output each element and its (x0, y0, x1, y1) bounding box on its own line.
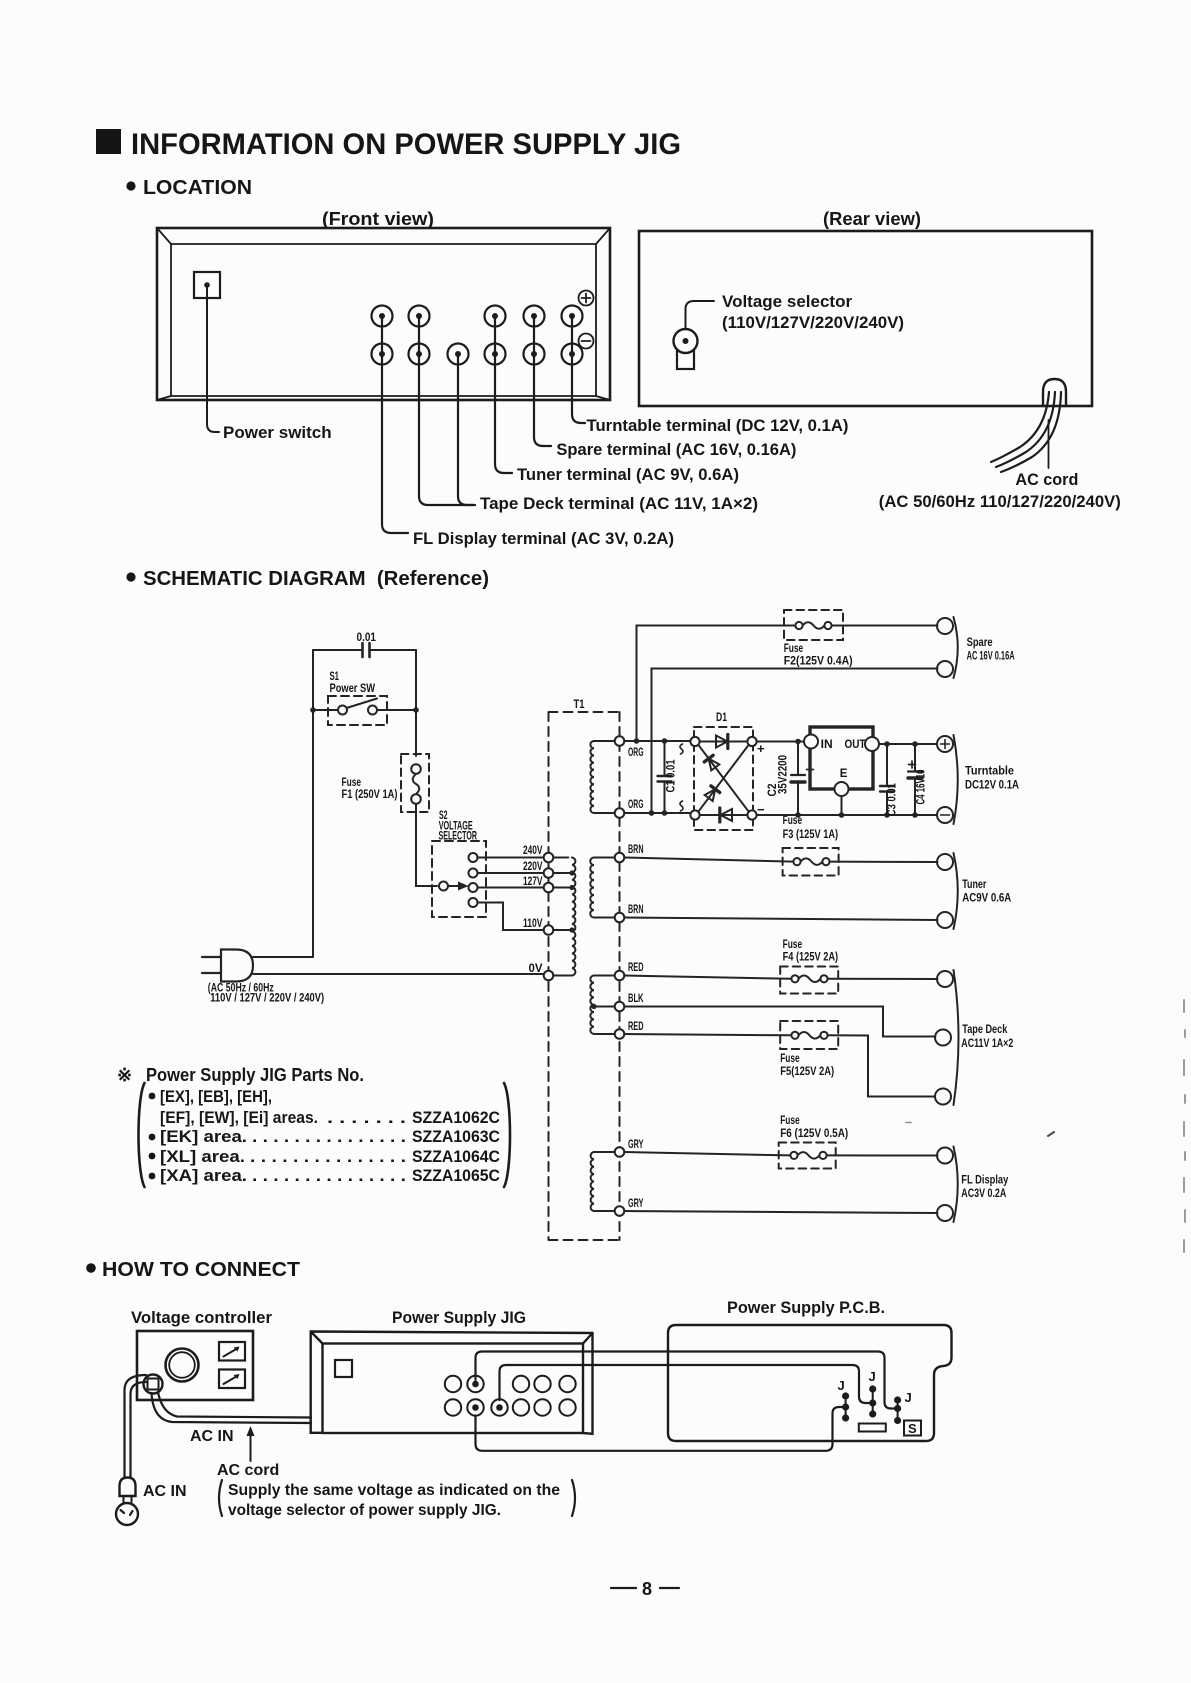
primary tap 0V (544, 971, 554, 981)
JIG power switch square (335, 1360, 352, 1377)
fuse F3 (125V 1A) (783, 848, 839, 876)
svg-text:GRY: GRY (628, 1139, 644, 1151)
terminal Turntable minus (937, 807, 953, 823)
JIG terminal c2r2 (connected) (467, 1399, 483, 1415)
wire BRN bottom to tuner (624, 918, 937, 921)
svg-text:OUT: OUT (845, 739, 866, 751)
wire BRN top to tuner (624, 858, 937, 863)
bridge node bottom-right (747, 810, 756, 819)
plus polarity symbol (579, 291, 594, 306)
svg-text:Power switch: Power switch (223, 423, 332, 442)
secondary terminal RED top (615, 971, 625, 981)
bridge rectifier D1 dashed box (694, 727, 753, 830)
svg-text:E: E (840, 768, 848, 780)
secondary terminal BRN top (615, 853, 625, 863)
bracket FL display (954, 1147, 958, 1223)
cord controller to JIG (158, 1392, 311, 1418)
JIG terminal c3r2 (connected) (491, 1399, 507, 1415)
controller meter 1 (219, 1342, 245, 1361)
svg-text:35V2200: 35V2200 (778, 755, 790, 794)
JIG box right side (583, 1333, 593, 1434)
wire spare upper riser (637, 626, 796, 742)
svg-text:AC 16V 0.16A: AC 16V 0.16A (967, 651, 1015, 663)
primary tap 240V (544, 853, 554, 863)
parts list closing paren (504, 1083, 510, 1187)
JIG terminal c2r1 (connected) (467, 1376, 483, 1392)
svg-text:INFORMATION ON POWER SUPPLY JI: INFORMATION ON POWER SUPPLY JIG (131, 128, 681, 161)
PCB outline (668, 1325, 952, 1441)
svg-text:(Front view): (Front view) (322, 209, 434, 229)
parts line 3 (149, 1134, 156, 1141)
switch S1 Power SW (328, 696, 387, 725)
terminal column 5 (spare) (524, 306, 545, 327)
selector contact 220V (469, 869, 478, 878)
PCB S box (904, 1421, 921, 1436)
svg-text:Fuse: Fuse (780, 1115, 800, 1127)
svg-text:Fuse: Fuse (780, 1053, 800, 1065)
power switch (front view) (194, 272, 220, 298)
transformer T1 dashed box (549, 712, 620, 1240)
secondary terminal GRY bottom (615, 1206, 625, 1216)
fuse F4 (125V 2A) (780, 967, 838, 994)
svg-text:S1: S1 (330, 671, 340, 683)
title square bullet (96, 129, 121, 154)
svg-text:220V: 220V (523, 861, 543, 873)
svg-text:110V: 110V (523, 918, 543, 930)
primary tap 127V (544, 883, 554, 893)
terminal Spare top (937, 618, 953, 634)
svg-text:S: S (908, 1421, 917, 1436)
svg-text:FL Display terminal (AC 3V, 0.: FL Display terminal (AC 3V, 0.2A) (413, 529, 674, 548)
JIG terminal c1r2 (445, 1399, 461, 1415)
svg-text:C3 0.01: C3 0.01 (887, 783, 899, 816)
wire RED top to tape deck (624, 976, 937, 980)
svg-text:C4 16V10: C4 16V10 (915, 770, 927, 805)
fuse F6 (125V 0.5A) (779, 1143, 836, 1169)
fuse F1 (250V 1A) (401, 754, 429, 812)
svg-text:F3 (125V 1A): F3 (125V 1A) (783, 829, 839, 841)
svg-text:AC3V 0.2A: AC3V 0.2A (961, 1188, 1006, 1200)
svg-text:SZZA1064C: SZZA1064C (412, 1147, 500, 1166)
svg-text:AC cord: AC cord (217, 1462, 279, 1479)
JIG terminal c1r1 (445, 1376, 461, 1392)
svg-text:127V: 127V (523, 876, 543, 888)
svg-text:SZZA1062C: SZZA1062C (412, 1108, 500, 1127)
terminal column 4 (tuner) (485, 306, 506, 327)
svg-text:LOCATION: LOCATION (143, 176, 252, 199)
svg-text:Tape Deck terminal (AC 11V, 1A: Tape Deck terminal (AC 11V, 1A×2) (480, 494, 758, 513)
parts list opening paren (139, 1083, 145, 1187)
wire contact4 to 110V tap (478, 903, 544, 931)
wire spare lower riser (652, 669, 938, 814)
svg-text:[EX], [EB], [EH],: [EX], [EB], [EH], (160, 1087, 272, 1106)
svg-text:F2(125V 0.4A): F2(125V 0.4A) (784, 656, 853, 668)
svg-text:※: ※ (117, 1065, 132, 1085)
capacitor C3 0.01 (886, 744, 888, 815)
parts line 1 (149, 1093, 156, 1100)
terminal column 2 (tape deck) (409, 306, 430, 327)
svg-text:J: J (905, 1390, 912, 1405)
wire col5 to Spare label (534, 316, 551, 446)
svg-text:Fuse: Fuse (342, 777, 362, 789)
wire GRY bottom to FL display (624, 1211, 937, 1213)
wire C jig c2r2 to PCB J1 (476, 1407, 843, 1451)
controller knob (166, 1349, 199, 1382)
svg-text:Spare: Spare (967, 637, 993, 649)
svg-text:Turntable: Turntable (965, 766, 1014, 778)
wire 127V tap (478, 887, 544, 889)
bracket turntable (954, 735, 958, 824)
wire ORG bottom rail (624, 812, 690, 814)
regulator OUT pin (865, 737, 879, 751)
wire bridge minus bottom rail (757, 814, 937, 816)
voltage controller box (137, 1331, 253, 1400)
svg-text:HOW TO CONNECT: HOW TO CONNECT (102, 1258, 300, 1281)
bullet LOCATION (126, 181, 135, 190)
svg-text:F4 (125V 2A): F4 (125V 2A) (783, 952, 839, 964)
terminal Tuner bottom (937, 912, 953, 928)
T1 secondary winding ORG (590, 741, 594, 813)
capacitor C1 0.01 (664, 741, 666, 813)
node spare riser on ORG top (634, 738, 640, 744)
bullet HOW TO CONNECT (86, 1263, 96, 1273)
svg-text:240V: 240V (523, 845, 543, 857)
wire col6 to Turntable label (572, 316, 585, 423)
node C2 bottom (795, 812, 801, 818)
capacitor C2 35V2200 (797, 742, 799, 816)
terminal Tape Deck top (937, 971, 953, 987)
svg-text:RED: RED (628, 962, 644, 974)
node C2 top (795, 739, 801, 745)
svg-text:voltage selector of power supp: voltage selector of power supply JIG. (228, 1502, 501, 1519)
selector arrow (448, 885, 459, 887)
bridge node top-right (747, 737, 756, 746)
svg-text:. . . . . . .: . . . . . . . (327, 1108, 406, 1127)
svg-text:ORG: ORG (628, 799, 644, 811)
wall plug AC IN (120, 1478, 136, 1497)
svg-text:0V: 0V (529, 963, 543, 975)
diode on TL-BR diagonal (709, 759, 720, 771)
JIG box top face (311, 1332, 593, 1344)
wire B jig c3r2 to PCB J2 (500, 1365, 870, 1403)
svg-text:AC11V 1A×2: AC11V 1A×2 (961, 1038, 1013, 1050)
PCB jumper J2 pins (872, 1389, 874, 1414)
wire RED bottom through F5 (624, 1034, 935, 1097)
wire bridge plus to regulator IN (757, 741, 804, 743)
front view panel outer frame (157, 228, 610, 400)
secondary terminal GRY top (615, 1147, 625, 1157)
controller AC inlet connector (144, 1375, 163, 1394)
plug prongs (202, 957, 221, 973)
note closing paren (572, 1480, 575, 1516)
terminal column 3 (tape deck lower) (448, 344, 469, 365)
svg-text:Tuner terminal (AC 9V, 0.6A): Tuner terminal (AC 9V, 0.6A) (517, 465, 739, 484)
wire A jig c2r1 to PCB J3 (476, 1352, 895, 1409)
node junction S1 right (413, 707, 419, 713)
JIG terminal c5r1 (534, 1376, 550, 1392)
JIG box left cap (311, 1332, 323, 1433)
svg-text:IN: IN (821, 739, 833, 751)
JIG terminal c4r2 (513, 1399, 529, 1415)
JIG terminal c6r2 (559, 1399, 575, 1415)
leader line AC cord (1048, 420, 1050, 468)
svg-text:Tape Deck: Tape Deck (962, 1024, 1007, 1036)
wire E to bottom rail (841, 796, 843, 815)
JIG terminal c6r1 (559, 1376, 575, 1392)
terminal Tuner top (937, 854, 953, 870)
primary tap 110V (544, 925, 554, 935)
label ac tilde bottom (680, 801, 683, 811)
wire F2 to spare terminal (832, 625, 938, 627)
terminal Tape Deck middle (935, 1030, 951, 1046)
svg-text:Fuse: Fuse (784, 643, 804, 655)
bullet SCHEMATIC DIAGRAM (126, 572, 135, 581)
arrow AC cord pointer (250, 1433, 252, 1461)
bezel corner lines (157, 228, 610, 400)
svg-text:D1: D1 (716, 712, 727, 724)
terminal column 6 (turntable) (562, 306, 583, 327)
svg-text:AC IN: AC IN (143, 1483, 187, 1500)
scan speck (1048, 1132, 1054, 1136)
svg-text:Power Supply JIG Parts No.: Power Supply JIG Parts No. (146, 1065, 364, 1085)
T1 primary winding (572, 858, 575, 976)
node junction S1 left (310, 707, 316, 713)
terminal FL Display bottom (937, 1205, 953, 1221)
svg-text:BRN: BRN (628, 904, 644, 916)
voltage selector keyhole (677, 348, 694, 369)
wire F1 to voltage selector (416, 804, 437, 886)
wire col3 to Tape Deck label (458, 354, 475, 505)
PCB connector footprint (859, 1424, 886, 1432)
svg-text:−: − (757, 802, 765, 817)
svg-text:. . . . . . . . . . . . . . .: . . . . . . . . . . . . . . . (252, 1166, 406, 1185)
PCB jumper J1 pins (845, 1396, 847, 1418)
JIG terminal c4r1 (513, 1376, 529, 1392)
secondary terminal ORG bottom (615, 808, 625, 818)
svg-text:SELECTOR: SELECTOR (439, 830, 478, 842)
terminal Spare bottom (937, 661, 953, 677)
T1 secondary winding BRN (590, 858, 594, 918)
wire right vertical cap to fuse F1 (415, 650, 417, 756)
wall outlet symbol (116, 1503, 138, 1525)
selector contact spare (469, 898, 478, 907)
svg-text:(110V/127V/220V/240V): (110V/127V/220V/240V) (722, 313, 904, 332)
selector contact 127V (469, 883, 478, 892)
svg-text:DC12V 0.1A: DC12V 0.1A (965, 780, 1019, 792)
svg-text:Fuse: Fuse (783, 939, 803, 951)
scan noise right edge (1184, 1000, 1185, 1252)
rear view panel (639, 231, 1092, 406)
front view panel inner bezel (171, 244, 596, 396)
svg-text:8: 8 (642, 1579, 652, 1599)
svg-text:(Rear view): (Rear view) (823, 209, 921, 229)
bracket tuner (954, 853, 958, 929)
capacitor 0.01 (line filter) (313, 649, 416, 651)
secondary terminal BRN bottom (615, 913, 625, 923)
svg-text:+: + (757, 741, 765, 756)
svg-text:RED: RED (628, 1021, 644, 1033)
secondary terminal ORG top (615, 736, 625, 746)
wire GRY top to FL display (624, 1152, 937, 1156)
wire left vertical from plug to cap (312, 650, 314, 957)
bridge diagonal BL-TR (698, 745, 748, 812)
wire col4 to Tuner label (495, 316, 512, 473)
PCB jumper J3 pins (897, 1400, 899, 1421)
svg-text:(AC 50/60Hz 110/127/220/240V): (AC 50/60Hz 110/127/220/240V) (879, 492, 1121, 511)
svg-text:FL Display: FL Display (961, 1175, 1008, 1187)
wire 240V tap (478, 857, 544, 859)
wire voltage selector to label (686, 301, 715, 329)
terminal FL Display top (937, 1148, 953, 1164)
bridge node top-left (690, 737, 699, 746)
svg-text:0.01: 0.01 (357, 632, 377, 644)
regulator E pin (835, 782, 849, 796)
primary tap 220V (544, 868, 554, 878)
selector contact 240V (469, 853, 478, 862)
node spare riser on ORG bottom (649, 810, 655, 816)
JIG box front face (323, 1344, 584, 1434)
svg-text:Voltage selector: Voltage selector (722, 292, 852, 311)
voltage regulator block (810, 727, 873, 789)
svg-text:Tuner: Tuner (962, 879, 986, 891)
svg-text:GRY: GRY (628, 1198, 644, 1210)
page number (611, 1587, 679, 1589)
svg-text:. . . . . . . . . . . . . . .: . . . . . . . . . . . . . . . (252, 1127, 406, 1146)
svg-text:Fuse: Fuse (783, 815, 803, 827)
svg-text:Spare terminal (AC 16V, 0.16A): Spare terminal (AC 16V, 0.16A) (556, 440, 796, 459)
JIG terminal c5r2 (534, 1399, 550, 1415)
svg-text:AC9V 0.6A: AC9V 0.6A (962, 893, 1011, 905)
wire power switch to label (207, 287, 219, 432)
svg-text:[XL] area.: [XL] area. (160, 1147, 245, 1166)
AC cord grommet (1043, 379, 1066, 406)
label ac tilde top (680, 744, 683, 754)
svg-text:J: J (838, 1378, 845, 1393)
minus polarity symbol (579, 334, 594, 349)
wire plug top lead (253, 956, 313, 958)
diode on BL-TR diagonal (705, 789, 716, 801)
parts line 4 (149, 1153, 156, 1160)
svg-text:AC cord: AC cord (1015, 470, 1078, 489)
svg-text:AC IN: AC IN (190, 1428, 234, 1445)
svg-text:BLK: BLK (628, 993, 644, 1005)
T1 secondary winding RED-BLK-RED (590, 976, 594, 1034)
switch S2 voltage selector (432, 841, 486, 917)
fuse F5 (125V 2A) (780, 1021, 838, 1049)
svg-text:SZZA1065C: SZZA1065C (412, 1166, 500, 1185)
terminal Tape Deck bottom (935, 1089, 951, 1105)
svg-text:[EK] area.: [EK] area. (160, 1127, 247, 1146)
terminal Turntable plus (937, 736, 953, 752)
bridge node bottom-left (690, 810, 699, 819)
wire col1 to FL Display label (382, 316, 408, 533)
svg-text:Voltage controller: Voltage controller (131, 1308, 272, 1327)
secondary terminal BLK (615, 1002, 625, 1012)
svg-text:. . . . . . . . . . . . . . .: . . . . . . . . . . . . . . . (250, 1147, 406, 1166)
bracket tape deck (954, 970, 959, 1105)
AC plug (schematic) (221, 950, 253, 982)
svg-text:BRN: BRN (628, 844, 644, 856)
bridge bottom side diode (700, 814, 748, 816)
svg-text:Power Supply JIG: Power Supply JIG (392, 1308, 526, 1327)
bracket spare (954, 617, 958, 678)
wire BLK to tape deck middle (624, 1007, 935, 1037)
svg-text:SZZA1063C: SZZA1063C (412, 1127, 500, 1146)
svg-text:F5(125V 2A): F5(125V 2A) (780, 1066, 834, 1078)
svg-text:Supply the same voltage as ind: Supply the same voltage as indicated on … (228, 1482, 560, 1499)
wire plug bottom lead 0V (253, 973, 544, 975)
cord controller to wall plug (125, 1375, 147, 1478)
parts line 5 (149, 1173, 156, 1180)
svg-text:F6 (125V 0.5A): F6 (125V 0.5A) (780, 1128, 848, 1140)
svg-text:Power Supply P.C.B.: Power Supply P.C.B. (727, 1298, 885, 1317)
svg-text:T1: T1 (574, 699, 585, 711)
svg-text:C1 0.01: C1 0.01 (666, 759, 678, 792)
T1 secondary winding GRY (591, 1152, 594, 1211)
svg-text:[EF], [EW], [Ei] areas.: [EF], [EW], [Ei] areas. (160, 1108, 318, 1127)
bridge diagonal TL-BR (698, 745, 748, 812)
bridge top side diode (700, 741, 748, 743)
svg-text:Power SW: Power SW (330, 683, 376, 695)
regulator IN pin (804, 735, 818, 749)
fuse F2 (125V 0.4A) (784, 610, 843, 640)
wire col2 to Tape Deck label (419, 316, 473, 505)
controller meter 2 (219, 1370, 245, 1389)
svg-text:ORG: ORG (628, 747, 644, 759)
wire ORG top rail (624, 740, 690, 742)
capacitor C4 16V10 (914, 744, 916, 815)
svg-text:SCHEMATIC DIAGRAM (Reference): SCHEMATIC DIAGRAM (Reference) (143, 567, 489, 590)
svg-text:F1 (250V 1A): F1 (250V 1A) (342, 789, 398, 801)
secondary terminal RED bottom (615, 1029, 625, 1039)
note opening paren (219, 1480, 222, 1516)
wire OUT to turntable plus (879, 743, 937, 745)
svg-text:Turntable terminal (DC 12V, 0.: Turntable terminal (DC 12V, 0.1A) (587, 416, 849, 435)
AC cord wires (991, 392, 1049, 462)
svg-text:J: J (869, 1369, 876, 1384)
terminal column 1 (FL display) (372, 306, 393, 327)
wire 220V tap (478, 872, 544, 874)
svg-text:[XA] area.: [XA] area. (160, 1166, 247, 1185)
svg-text:110V / 127V / 220V / 240V): 110V / 127V / 220V / 240V) (210, 993, 324, 1005)
secondary center tap BLK wire (594, 1006, 615, 1008)
